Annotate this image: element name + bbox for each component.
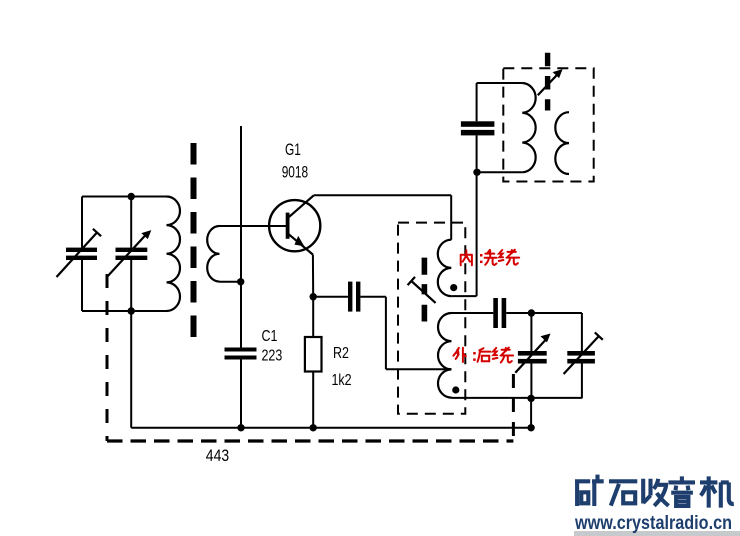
wire: emitter to coupling cap [313,296,348,298]
svg-text:C1: C1 [262,328,278,346]
resistor R2 body [305,337,322,372]
wire: tank bottom to ground [130,311,132,428]
red annotation: nei xian rao (inner winding first) [461,250,520,266]
wire: collector up and over [314,195,451,239]
wire: left tank top rail [82,196,167,198]
oscillator core arrow line [538,74,558,95]
transistor Q1 base bar [286,213,290,239]
red annotation: wai hou rao (outer winding later) [453,348,513,363]
wire: series cap to varcaps [506,312,582,314]
node: oscillator tank bottom junction [473,169,480,176]
ganged tuning dashed box (443 frame) [106,274,109,441]
svg-text:223: 223 [262,347,283,365]
wire: R2 branch [312,297,314,428]
node: top junction of CB [128,193,135,200]
transistor Q1 circle [269,200,320,251]
oscillator transformer primary coil [522,83,535,172]
phase dot of outer winding [452,386,459,393]
outer winding coil (wai) [438,313,452,398]
wire: inner winding bottom lead [451,295,476,297]
wire: left tank bottom rail [82,310,167,312]
wire: coupling cap to coil tap [360,297,451,370]
wire: secondary top lead / base wire [220,225,288,227]
node: C1 to ground junction [237,424,244,431]
node: bottom junction of CB [128,307,135,314]
middle transformer adjustable core (dashed bar) [422,258,428,322]
wire: trimmer CA branch left rail [81,197,83,312]
svg-text:www.crystalradio.cn: www.crystalradio.cn [574,512,732,534]
wire: varcap2 branch [581,313,583,398]
series capacitor C3 plates [493,298,506,328]
transistor Q1 emitter stroke [288,233,313,254]
node: ground end junction [527,424,534,431]
variable capacitor CB arrow [107,234,147,278]
wire: antenna vertical line upper [240,126,242,348]
middle transformer dashed box [398,223,465,414]
svg-text:9018: 9018 [282,164,308,183]
wire: secondary bottom lead [220,281,241,283]
ferrite rod core (dashed bar) [191,143,197,338]
variable capacitor CB plates [116,248,148,260]
trimmer capacitor CT2 plates [567,351,595,364]
trimmer capacitor CA adjust line [57,229,102,277]
svg-text:G1: G1 [285,141,301,160]
oscillator adjustable core (dashed bar) [545,53,550,111]
coupling coil L1 secondary [207,226,219,282]
oscillator transformer secondary coil [555,112,569,174]
wire: outer winding top lead [452,312,494,314]
inner winding coil (nei) [438,240,452,296]
node: emitter junction [310,293,317,300]
svg-text:443: 443 [206,447,229,465]
wire: antenna vertical line lower [240,360,242,428]
red colon of nei label [480,254,483,263]
oscillator transformer dashed box [503,68,593,181]
node: bottom lead junction [527,395,534,402]
wire: varcap1 branch [530,313,532,398]
wire: oscillator primary bottom lead [477,171,522,173]
wire: tank to ground tie [530,398,532,427]
coupling capacitor C2 plates [348,282,360,312]
wire: outer winding bottom lead [452,397,582,399]
logo character shi [609,481,637,505]
logo character shou [643,479,668,506]
svg-text:R2: R2 [333,345,349,363]
capacitor C1 plates [225,348,257,360]
node: R2 to ground junction [310,424,317,431]
svg-text:1k2: 1k2 [332,372,352,390]
variable capacitor CV1 plates [518,351,547,364]
logo url text [574,512,732,534]
variable capacitor CV1 arrowhead [541,334,551,343]
variable capacitor CB arrowhead [141,230,151,239]
middle transformer core adjust line with T end [408,277,436,303]
wire: ground rail [131,427,531,429]
logo character ji [700,476,734,507]
red colon of wai label [473,352,476,361]
node: varcap1 top junction [528,309,535,316]
wire: varcap CB branch [130,197,132,312]
transistor Q1 collector stroke [288,195,314,218]
logo character yin [668,476,695,506]
wire: riser to oscillator tank [477,83,523,296]
wire: emitter down [312,255,314,297]
phase dot of inner winding [450,284,457,291]
trimmer capacitor CA plates [66,248,97,260]
oscillator core arrowhead [553,69,563,78]
oscillator tank capacitor plates [461,121,495,135]
watermark gray band [574,531,740,536]
transistor Q1 emitter arrowhead [295,236,305,246]
trimmer capacitor CT2 adjust line [564,332,603,374]
antenna coil L1 primary [167,197,181,311]
variable capacitor CV1 arrow [515,339,546,372]
node: secondary to antenna line junction [237,278,244,285]
logo character kuang [575,475,734,508]
